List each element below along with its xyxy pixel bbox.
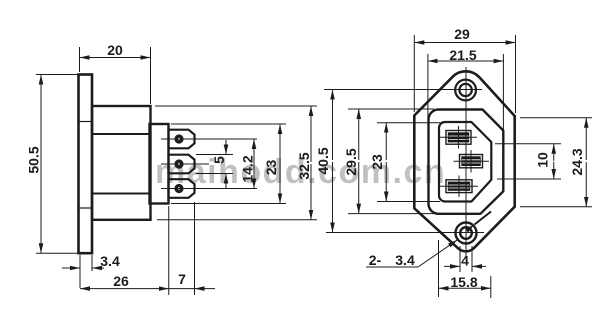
dim 24.3 line [585,118,587,160]
dim 4 line [444,265,460,267]
svg-text:23: 23 [263,160,279,176]
svg-text:23: 23 [369,154,385,170]
svg-text:10: 10 [535,152,551,168]
ext line pin2 bottom edge [196,173,233,175]
contact slot S3 (bottom) [446,180,472,193]
dim 21.5 [427,54,429,120]
pin P1 (top spade) [169,130,195,149]
ext line housing top [171,123,286,125]
body inner line lower [92,193,151,195]
dim 23 ext (right view) [377,122,442,124]
slot S1 centerline [440,136,477,138]
ext line body bottom [157,219,317,221]
svg-text:5: 5 [211,156,227,164]
flange inner line upper [80,121,92,123]
terminal housing H1 [150,124,169,204]
dim 29 [413,35,415,112]
dim 15.8 ext [438,240,440,297]
dim 23 line (left view) [279,124,281,164]
svg-text:32.5: 32.5 [296,152,312,179]
svg-text:29.5: 29.5 [343,148,359,175]
svg-text:2-: 2- [369,252,382,268]
svg-text:21.5: 21.5 [449,47,476,63]
pin P2 (middle spade) [169,155,195,174]
dim 29.5 line [358,109,360,160]
svg-text:24.3: 24.3 [569,148,585,175]
dim 15.8 line [439,287,463,289]
dim 29.5 ext [348,108,434,110]
dim 23 line (right view) [385,123,387,160]
top mounting hole [455,80,476,101]
dim 4 ext [459,246,461,272]
dim 40.5 line [332,90,334,161]
ext line body top [155,105,317,107]
dim 10 ext [495,143,561,145]
top hole centerline / dim 40.5 ext [324,89,482,91]
body B1 [92,106,151,220]
dim 20 [79,47,81,72]
flange F1 [79,75,93,254]
svg-text:3.4: 3.4 [395,252,415,268]
svg-text:50.5: 50.5 [26,146,42,173]
centerline pin3 [161,188,257,190]
svg-text:40.5: 40.5 [315,147,331,174]
dim 5 line [225,140,227,155]
dim 32.5 line [310,106,312,162]
body inner line upper [92,133,151,135]
dim 26 [80,288,124,290]
svg-text:20: 20 [107,42,123,58]
slot S3 centerline [440,185,478,187]
screw slot mark leader [475,212,492,225]
svg-text:4: 4 [461,253,469,269]
dim 50.5 [36,74,78,76]
svg-text:26: 26 [113,273,129,289]
bottom mounting hole [456,223,477,244]
pin P3 (bottom spade) [169,179,195,198]
centerline pin1 [161,138,257,140]
label 2-3.4 leader [366,266,418,268]
contact slot S1 (top) [446,131,471,145]
recess inner outline [439,122,491,202]
dim 14.2 line [253,139,255,164]
pin P1 hole [176,136,182,142]
svg-text:3.4: 3.4 [100,253,120,269]
svg-text:7: 7 [178,271,186,287]
contact slot S2 (middle) [460,155,483,168]
vertical axis centerline [465,67,467,257]
flange inner line lower [80,207,92,209]
ext line housing bottom [171,203,286,205]
svg-text:29: 29 [454,26,470,42]
bottom hole centerline / dim 40.5 ext [326,232,484,234]
outer flange outline [414,71,514,251]
dim 3.4 [79,255,81,288]
dim 10 line [553,144,555,161]
dim 24.3 ext [520,117,592,119]
slot S2 centerline [454,160,490,162]
ext line pin2 top edge [196,154,233,156]
centerline pin2 [161,163,209,165]
svg-text:15.8: 15.8 [450,274,477,290]
pin P3 hole [176,186,182,192]
svg-text:14.2: 14.2 [240,155,256,182]
dim 7 [168,206,170,295]
recess rim outline (middle) [429,110,504,214]
pin P2 hole [176,161,182,167]
